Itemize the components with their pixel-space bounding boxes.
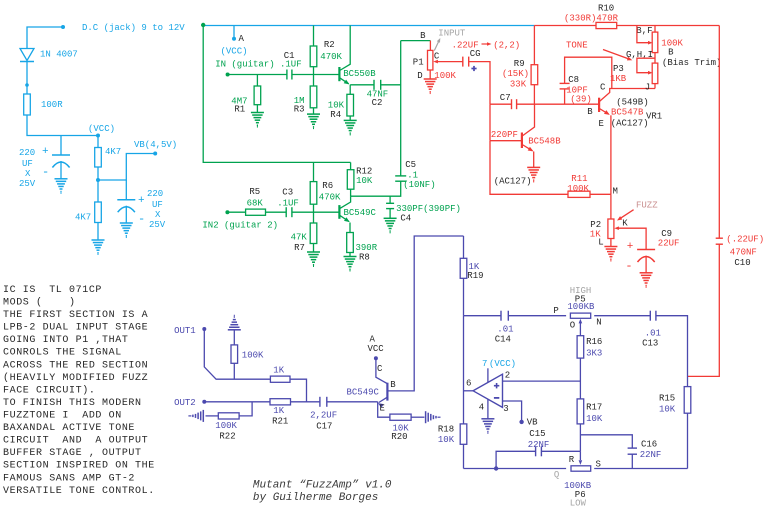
- transistor Q4 emitter: [522, 145, 532, 151]
- capacitor 220UF 25V input filter: [52, 154, 70, 156]
- svg-text:(10NF): (10NF): [403, 180, 435, 190]
- svg-text:BUFFER STAGE , OUTPUT: BUFFER STAGE , OUTPUT: [3, 448, 142, 459]
- svg-text:VB(4,5V): VB(4,5V): [134, 140, 177, 150]
- diode D1 1N4007: [20, 49, 34, 61]
- wire P6 to C16 node: [594, 468, 687, 470]
- svg-text:1K: 1K: [273, 406, 284, 416]
- svg-text:C17: C17: [316, 422, 332, 432]
- wire C7 left: [490, 103, 512, 105]
- resistor R12 10K: [350, 162, 352, 196]
- capacitor C9 22UF: [637, 249, 655, 251]
- svg-text:(Bias Trim): (Bias Trim): [662, 58, 721, 68]
- op-amp plus input mark: [494, 385, 499, 387]
- svg-text:by Guilherme Borges: by Guilherme Borges: [253, 492, 378, 504]
- resistor R9 33K: [533, 26, 535, 105]
- svg-text:BC549C: BC549C: [344, 208, 377, 218]
- svg-text:R20: R20: [391, 432, 407, 442]
- svg-text:1N 4007: 1N 4007: [40, 50, 78, 60]
- svg-text:B: B: [420, 31, 426, 41]
- jack OUT of R20: [411, 416, 424, 418]
- antenna ground above 100K mixer: [228, 329, 241, 331]
- svg-text:BC549C: BC549C: [347, 388, 380, 398]
- capacitor C3 .1UF: [285, 207, 287, 217]
- svg-text:FUZZ: FUZZ: [636, 201, 658, 211]
- potentiometer P3 wiper: [648, 71, 653, 75]
- svg-text:ACROSS THE RED SECTION: ACROSS THE RED SECTION: [3, 360, 148, 371]
- svg-text:VB: VB: [527, 418, 538, 428]
- wire right rail lower to output section: [688, 244, 720, 377]
- resistor R11 100K: [568, 191, 590, 197]
- ground under R8: [344, 256, 357, 258]
- svg-text:IC IS TL 071CP: IC IS TL 071CP: [3, 285, 102, 296]
- svg-text:C7: C7: [500, 93, 511, 103]
- wire C5 to Q2 collector: [351, 181, 401, 196]
- svg-text:100R: 100R: [41, 100, 63, 110]
- node VB at op-amp: [519, 420, 523, 424]
- svg-text:MODS ( ): MODS ( ): [3, 297, 76, 309]
- label + navy mark: [471, 68, 476, 70]
- wire C13 to R15 rail: [656, 316, 688, 387]
- transistor VR1 collector: [599, 89, 655, 102]
- wire base of Q4: [490, 140, 522, 142]
- svg-text:E: E: [599, 119, 604, 129]
- wire C7 to VR1 base: [517, 103, 600, 105]
- jack IN of R22: [206, 415, 219, 417]
- potentiometer P1 100K: [428, 50, 433, 70]
- svg-text:R16: R16: [586, 337, 602, 347]
- ground under P2: [604, 246, 617, 248]
- svg-text:-: -: [42, 165, 49, 179]
- resistor R1 4M7: [256, 75, 258, 87]
- svg-text:R9: R9: [514, 59, 525, 69]
- wire C14 left: [464, 315, 502, 317]
- wire R21 to C17: [291, 401, 320, 403]
- svg-text:THE FIRST SECTION IS A: THE FIRST SECTION IS A: [3, 310, 148, 321]
- wire VB cap to ground: [125, 206, 127, 223]
- wire P2 to ground: [610, 239, 612, 247]
- annotation arrow TONE: [603, 50, 629, 60]
- svg-text:1K: 1K: [273, 366, 284, 376]
- capacitor C7: [511, 99, 513, 109]
- transistor Q1 BC550B base bar: [338, 67, 340, 81]
- wire IN to C1: [228, 74, 287, 76]
- resistor 100R: [24, 94, 31, 115]
- transistor Q3 base wire: [387, 236, 463, 391]
- svg-text:C1: C1: [284, 51, 295, 61]
- node IN2 terminal: [225, 210, 229, 214]
- svg-text:(AC127): (AC127): [494, 177, 532, 187]
- svg-text:INPUT: INPUT: [438, 29, 466, 39]
- node IN guitar terminal: [226, 73, 230, 77]
- svg-text:C9: C9: [661, 229, 672, 239]
- node divider mid VB: [96, 178, 100, 182]
- transistor Q2 emitter: [340, 215, 349, 221]
- svg-text:N: N: [596, 318, 601, 328]
- node OUT1 terminal: [202, 327, 206, 331]
- transistor Q3 collector: [376, 358, 387, 383]
- capacitor C5 .1 10NF: [395, 175, 406, 177]
- wire op-amp output column: [463, 316, 465, 424]
- node DC jack terminal: [61, 25, 65, 29]
- svg-text:L: L: [598, 238, 603, 248]
- svg-text:+: +: [138, 195, 145, 207]
- svg-text:A: A: [239, 34, 245, 44]
- svg-text:FUZZTONE I ADD ON: FUZZTONE I ADD ON: [3, 411, 122, 422]
- svg-text:68K: 68K: [247, 199, 264, 209]
- annotation arrow INPUT: [434, 40, 439, 51]
- svg-text:B: B: [587, 107, 593, 117]
- wire C13 left: [594, 315, 650, 317]
- svg-text:3: 3: [503, 404, 508, 414]
- svg-text:Mutant “FuzzAmp” v1.0: Mutant “FuzzAmp” v1.0: [253, 479, 392, 491]
- svg-text:IN2 (guitar 2): IN2 (guitar 2): [202, 221, 278, 231]
- ground under VB cap: [120, 222, 133, 224]
- resistor R3 1M: [313, 75, 315, 115]
- svg-text:TONE: TONE: [566, 41, 588, 51]
- resistor R17 10K: [577, 399, 584, 424]
- svg-text:R15: R15: [659, 394, 675, 404]
- svg-text:+: +: [42, 146, 49, 158]
- svg-text:VCC: VCC: [368, 344, 385, 354]
- svg-text:R18: R18: [438, 425, 454, 435]
- node VCC at Q3: [374, 356, 378, 360]
- svg-text:C10: C10: [734, 258, 750, 268]
- svg-text:E: E: [380, 403, 385, 413]
- potentiometer P6 wiper: [579, 451, 581, 460]
- wire C2 to interstage node: [381, 84, 401, 86]
- svg-text:C: C: [377, 364, 383, 374]
- svg-text:(AC127): (AC127): [611, 119, 649, 129]
- svg-text:-: -: [625, 259, 632, 273]
- svg-text:(39): (39): [570, 95, 592, 105]
- svg-text:D.C (jack) 9 to 12V: D.C (jack) 9 to 12V: [82, 23, 185, 33]
- svg-text:C16: C16: [641, 440, 657, 450]
- resistor 4K7 lower divider: [97, 180, 99, 240]
- wire P1 top: [429, 41, 431, 51]
- svg-text:220: 220: [147, 189, 163, 199]
- svg-text:22UF: 22UF: [658, 239, 680, 249]
- svg-text:R5: R5: [249, 187, 260, 197]
- transistor Q3 emitter: [379, 397, 387, 402]
- svg-text:470NF: 470NF: [730, 248, 757, 258]
- potentiometer P1 wiper: [433, 60, 438, 64]
- svg-text:C13: C13: [642, 339, 658, 349]
- wire C1 to Q1 base: [292, 74, 340, 76]
- svg-text:LOW: LOW: [570, 499, 587, 509]
- wire cap to ground: [60, 161, 62, 179]
- resistor R15 10K: [684, 387, 691, 414]
- transistor Q2 BC549C base bar: [338, 205, 340, 219]
- capacitor C1 .1UF: [286, 70, 288, 80]
- svg-text:C5: C5: [405, 160, 416, 170]
- svg-text:(VCC): (VCC): [88, 124, 115, 134]
- ground under P1: [424, 78, 437, 80]
- svg-text:C2: C2: [372, 98, 383, 108]
- node VB terminal: [153, 152, 157, 156]
- svg-text:R6: R6: [322, 181, 333, 191]
- ground under R7: [307, 251, 320, 253]
- wire P1 bottom to ground: [429, 70, 431, 79]
- svg-text:4K7: 4K7: [105, 147, 121, 157]
- svg-text:B: B: [668, 48, 674, 58]
- resistor R18 10K: [460, 424, 467, 444]
- wire bias pot column: [654, 26, 656, 89]
- resistor R6 470K: [313, 162, 315, 212]
- svg-text:.01: .01: [645, 329, 661, 339]
- wire diode to resistor: [26, 62, 28, 95]
- svg-text:P3: P3: [613, 64, 624, 74]
- resistor R16 3K3: [579, 327, 581, 399]
- wire 220PF branch: [489, 104, 491, 141]
- svg-text:M: M: [613, 187, 618, 197]
- svg-text:J: J: [645, 83, 650, 93]
- svg-text:25V: 25V: [19, 179, 36, 189]
- svg-text:25V: 25V: [149, 220, 166, 230]
- svg-text:BC550B: BC550B: [343, 69, 376, 79]
- svg-text:470K: 470K: [320, 52, 342, 62]
- potentiometer P5 100KB HIGH: [570, 313, 590, 318]
- wire DC jack to diode: [27, 27, 63, 48]
- svg-text:(2,2): (2,2): [493, 40, 520, 50]
- ground under divider: [92, 239, 105, 241]
- svg-text:220PF: 220PF: [491, 130, 518, 140]
- op-amp minus input mark: [494, 397, 499, 399]
- node bottom rail junction: [494, 466, 498, 470]
- svg-text:R3: R3: [294, 104, 305, 114]
- svg-text:22NF: 22NF: [528, 440, 550, 450]
- svg-text:220: 220: [19, 148, 35, 158]
- svg-text:X: X: [25, 169, 31, 179]
- svg-text:SECTION INSPIRED ON THE: SECTION INSPIRED ON THE: [3, 461, 155, 472]
- capacitor C8 10PF loop: [564, 89, 566, 104]
- wire right rail upper: [718, 26, 720, 239]
- svg-text:47K: 47K: [291, 233, 308, 243]
- wire IN2 to R5: [227, 211, 245, 213]
- resistor R7 47K: [313, 212, 315, 252]
- wire VCC stub A: [233, 26, 235, 39]
- svg-text:R7: R7: [294, 243, 305, 253]
- wire left VCC rail down and right: [203, 25, 350, 162]
- wire C17 to Q3 emitter: [327, 401, 378, 403]
- wire R5 to C3: [266, 211, 287, 213]
- svg-text:6: 6: [466, 379, 471, 389]
- ground under op-amp: [481, 418, 494, 420]
- svg-text:10K: 10K: [586, 414, 603, 424]
- svg-text:UF: UF: [22, 159, 33, 169]
- svg-text:R17: R17: [586, 403, 602, 413]
- svg-text:R8: R8: [359, 253, 370, 263]
- ground under C9: [640, 272, 653, 274]
- resistor R10 470R: [534, 25, 719, 27]
- op-amp pin7 stub: [487, 368, 489, 382]
- resistor R8 390R: [347, 233, 354, 253]
- svg-text:R1: R1: [234, 104, 245, 114]
- svg-text:P1: P1: [413, 58, 424, 68]
- svg-text:C14: C14: [495, 335, 511, 345]
- wire interstage to P1: [401, 40, 431, 42]
- wire VCC top rail: [203, 25, 534, 27]
- potentiometer bias 100K: [652, 32, 658, 53]
- svg-text:R12: R12: [356, 167, 372, 177]
- svg-text:(15K): (15K): [502, 69, 529, 79]
- svg-text:10K: 10K: [438, 435, 455, 445]
- svg-text:R21: R21: [272, 417, 288, 427]
- capacitor C4 330PF: [389, 196, 391, 203]
- ground under input filter cap: [55, 178, 68, 180]
- svg-text:UF: UF: [152, 200, 163, 210]
- transistor Q4 collector: [522, 104, 534, 136]
- potentiometer P2 wiper: [614, 226, 619, 230]
- svg-text:4: 4: [479, 403, 484, 413]
- svg-text:100K: 100K: [215, 421, 237, 431]
- svg-text:33K: 33K: [510, 80, 527, 90]
- svg-text:BAXANDAL ACTIVE TONE: BAXANDAL ACTIVE TONE: [3, 423, 135, 434]
- ground under C4: [384, 217, 397, 219]
- transistor VR1 emitter: [599, 109, 608, 115]
- capacitor 220UF 25V VB filter: [117, 199, 135, 201]
- svg-text:BC548B: BC548B: [528, 137, 561, 147]
- wire interstage vertical: [400, 41, 402, 176]
- transistor Q1 emitter: [340, 78, 349, 84]
- svg-text:1KB: 1KB: [610, 74, 627, 84]
- svg-text:390R: 390R: [356, 243, 378, 253]
- svg-text:O: O: [570, 321, 575, 331]
- wire 100R to VCC node: [27, 115, 98, 136]
- wire R22 branch: [239, 402, 252, 416]
- svg-text:K: K: [622, 219, 628, 229]
- node VCC junction: [96, 134, 100, 138]
- svg-text:C3: C3: [282, 188, 293, 198]
- annotation arrow to (2,2): [482, 43, 490, 45]
- svg-text:2: 2: [505, 370, 510, 380]
- potentiometer P5 wiper: [579, 323, 581, 327]
- node VCC rail tap for input stage: [201, 23, 205, 27]
- svg-text:(.22UF): (.22UF): [726, 234, 764, 244]
- svg-text:P: P: [553, 306, 558, 316]
- potentiometer bias wiper: [648, 41, 653, 45]
- svg-text:CONROLS THE SIGNAL: CONROLS THE SIGNAL: [3, 348, 122, 359]
- svg-text:.01: .01: [497, 325, 513, 335]
- capacitor C10 470NF: [716, 237, 723, 239]
- transistor Q2 collector: [340, 196, 351, 208]
- svg-text:VR1: VR1: [646, 112, 662, 122]
- potentiometer P6 100KB LOW: [571, 466, 591, 471]
- resistor R2 470K: [313, 26, 315, 75]
- svg-text:2,2UF: 2,2UF: [310, 411, 337, 421]
- capacitor C13 .01: [649, 311, 651, 321]
- op-amp U1 TL071: [473, 374, 502, 407]
- svg-text:LPB-2 DUAL INPUT STAGE: LPB-2 DUAL INPUT STAGE: [3, 323, 148, 334]
- svg-text:VERSATILE TONE CONTROL.: VERSATILE TONE CONTROL.: [3, 486, 155, 497]
- svg-text:470K: 470K: [319, 193, 341, 203]
- ground under Q4: [527, 166, 540, 168]
- svg-text:22NF: 22NF: [640, 450, 662, 460]
- svg-text:R4: R4: [330, 110, 341, 120]
- ground under R1: [251, 112, 264, 114]
- wire C15 to P6 wiper node: [541, 450, 580, 452]
- svg-text:C8: C8: [568, 75, 579, 85]
- svg-text:R: R: [569, 455, 575, 465]
- op-amp pin3 wire to VB: [503, 401, 522, 422]
- svg-text:C4: C4: [400, 214, 411, 224]
- resistor R20 10K: [390, 414, 411, 420]
- svg-text:100KB: 100KB: [567, 302, 595, 312]
- capacitor C2 47NF: [373, 80, 375, 90]
- capacitor C17 2,2UF: [319, 397, 321, 407]
- svg-text:C15: C15: [529, 429, 545, 439]
- svg-text:B,F: B,F: [636, 26, 652, 36]
- svg-text:-: -: [138, 212, 145, 226]
- capacitor C15 22NF: [535, 446, 537, 456]
- svg-text:TO FINISH THIS MODERN: TO FINISH THIS MODERN: [3, 398, 142, 409]
- svg-text:C: C: [600, 83, 606, 93]
- svg-text:10K: 10K: [356, 176, 373, 186]
- capacitor C16 22NF: [628, 447, 637, 449]
- svg-text:10K: 10K: [328, 100, 345, 110]
- svg-text:R2: R2: [324, 40, 335, 50]
- node OUT2 terminal: [202, 400, 206, 404]
- wire OUT1 down-diagonal: [204, 329, 270, 379]
- resistor R4 10K: [347, 94, 354, 116]
- wire C16 to bottom rail: [631, 454, 633, 468]
- resistor R22 100K: [218, 413, 239, 419]
- wire C15 left: [496, 451, 535, 468]
- svg-text:(HEAVILY MODIFIED FUZZ: (HEAVILY MODIFIED FUZZ: [3, 372, 148, 384]
- svg-text:D: D: [417, 71, 422, 81]
- svg-text:R22: R22: [219, 432, 235, 442]
- capacitor C14 .01: [500, 311, 502, 321]
- svg-text:R19: R19: [467, 271, 483, 281]
- wire CG to C7 column: [469, 62, 490, 105]
- svg-text:BC547B: BC547B: [611, 108, 644, 118]
- op-amp pin6 wire: [464, 390, 474, 392]
- transistor Q4 BC548B base bar: [521, 133, 523, 149]
- wire OUT2 to R21: [204, 401, 270, 403]
- svg-text:X: X: [155, 210, 161, 220]
- svg-text:R11: R11: [571, 174, 587, 184]
- wire VCC to C-filter: [60, 136, 62, 156]
- wire Q1 emitter to C2: [350, 84, 374, 86]
- svg-text:100K: 100K: [242, 351, 264, 361]
- svg-text:3K3: 3K3: [586, 349, 602, 359]
- wire R17 to C16: [580, 435, 632, 448]
- svg-text:IN (guitar) .1UF: IN (guitar) .1UF: [215, 60, 301, 70]
- svg-text:10K: 10K: [659, 405, 676, 415]
- resistor R5 68K: [246, 209, 266, 215]
- wire Q3 emitter to R20: [378, 402, 390, 417]
- svg-text:GOING INTO P1 ,THAT: GOING INTO P1 ,THAT: [3, 335, 128, 346]
- resistor 4K7 upper divider: [97, 136, 99, 181]
- svg-text:B: B: [390, 380, 396, 390]
- wire feedback bottom: [490, 141, 568, 195]
- capacitor CG .22UF: [462, 57, 464, 67]
- svg-text:(549B): (549B): [616, 98, 648, 108]
- ground under R4: [344, 119, 357, 121]
- svg-text:4K7: 4K7: [75, 213, 91, 223]
- node junction below diode: [25, 83, 29, 87]
- svg-text:+: +: [627, 241, 634, 253]
- svg-text:OUT2: OUT2: [174, 398, 196, 408]
- wire C9 to ground: [645, 256, 647, 273]
- node A VCC: [232, 37, 236, 41]
- text description block: [3, 285, 155, 497]
- svg-text:(VCC): (VCC): [489, 359, 516, 369]
- svg-text:P2: P2: [590, 220, 601, 230]
- svg-text:C: C: [434, 52, 440, 62]
- svg-text:100K: 100K: [567, 184, 589, 194]
- op-amp pin4 stub: [487, 399, 489, 419]
- wire bottom rail: [464, 468, 567, 470]
